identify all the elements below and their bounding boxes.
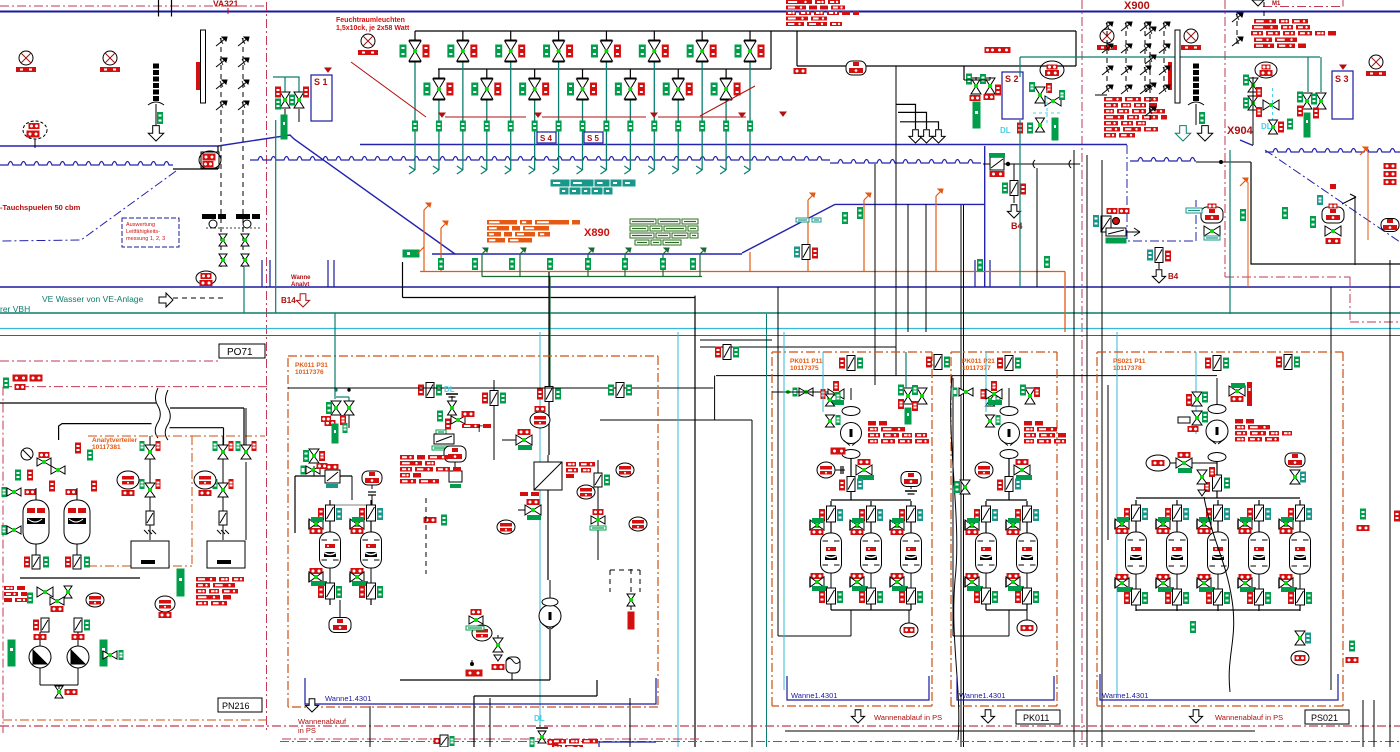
sprinkler nozzle c [1145,108,1155,116]
pipe instrument x851 [847,356,855,371]
PN216 red mini [4,586,14,590]
valve indicator red 11 [662,45,668,57]
red ddot bottom 2 [282,738,700,740]
valve indicator red 12 [686,83,692,95]
P31 drain arrow [305,699,318,712]
P31 green bar top [332,424,338,443]
sprinkler nozzle x1237b [1232,38,1242,46]
pipe instrument x727 [723,345,731,360]
level sensor green 4 [484,121,489,131]
P31 valve box [434,434,454,444]
PS021 drain arrow [1189,710,1202,723]
sprinkler pipe r1 [1125,22,1127,93]
VA321 tick [227,8,229,14]
riser pipe 15 [749,30,751,32]
P11 pump suction [850,420,852,448]
mid pipe x926b [925,204,927,332]
PN216 bottom pipes [39,668,41,685]
valve indicator green 5 [496,45,502,57]
S2 down pipe [963,66,965,80]
svg-text:Wannenablauf in PS: Wannenablauf in PS [1215,713,1283,722]
seg col green ind [158,113,163,124]
P31 red block right [400,455,414,460]
basin floor [432,253,742,255]
pipe x778 [777,287,779,392]
riser outlet arrow 10 [624,170,630,174]
svg-text:Γ: Γ [478,424,483,434]
level sensor green 3 [460,121,465,131]
riser pipe 5 [510,30,512,32]
PN216 small pump [21,448,33,460]
P11 valve col [826,394,835,400]
sprinkler nozzle r [1140,67,1150,75]
cyan drop x678 [677,332,679,747]
P11 pump [841,423,862,444]
Analyt feed pipe B [59,424,152,440]
blue bottom corner [599,741,656,743]
right basin wall [1251,162,1400,264]
P11 inlet pipe [772,391,828,393]
blue dashdot basin slope left [0,171,176,241]
teal drop mid [1229,150,1231,314]
sprinkler nozzle r [1159,45,1169,53]
svg-text:DL: DL [1000,126,1011,135]
PN216 tank 1 [23,500,49,544]
riser outlet arrow 8 [577,170,583,174]
bottom DL valve [538,731,546,737]
bottom pipe stubs [369,706,371,747]
VE dashed line [173,297,223,299]
teal manifold right [1020,56,1320,58]
svg-text:in PS: in PS [298,726,316,735]
level sensor green 13 [700,121,705,131]
riser outlet arrow 9 [600,170,606,174]
manifold valve 7 [558,31,560,40]
water wavy main [250,157,830,161]
sprinkler pipe r0 [1106,22,1108,93]
svg-text:S 3: S 3 [1335,74,1349,84]
P31 instr chain [493,380,495,460]
PS021 valve mid [1197,470,1207,477]
manifold valve 11 [653,31,655,40]
P21 battery headers [986,499,1027,501]
P31 DL valve [448,401,457,408]
PS021 oval left [1146,455,1170,471]
sprinkler nozzle r [1102,45,1112,53]
riser pipe 8 [582,68,584,70]
B4 right instrument [1155,248,1163,263]
orange pipe drop [1064,272,1066,333]
sprinkler feed [1095,94,1107,96]
P11 inlet valves [828,389,836,399]
svg-text:S 4: S 4 [540,134,553,143]
S1 valve 1 [280,92,290,100]
valve indicator green 6 [520,83,526,95]
P31 oval c [577,485,595,499]
valve indicator green 13 [687,45,693,57]
water wavy small box [1130,158,1196,162]
P31 valve left [309,449,319,456]
cond cluster boxes [202,214,216,219]
seg column 2 [1194,64,1199,68]
sprinkler nozzle x1237a [1232,14,1242,22]
manifold valve 8 [582,69,584,78]
P31 pot top b [362,471,382,485]
Analyt red block [196,577,216,582]
riser pipe 3 [462,30,464,32]
svg-text:Wanne1.4301: Wanne1.4301 [959,691,1005,700]
red level marker [651,113,657,117]
right black pipe [1252,77,1254,145]
dashed pipe x1150 [1149,25,1151,120]
manifold valve 2 [438,69,440,78]
P31 ell right [616,463,634,477]
svg-text:Wanne: Wanne [291,275,311,281]
black hpipe left [0,339,288,341]
left pool outlet [173,168,218,170]
P21 oval right [1017,620,1037,636]
box PO71 border [0,360,219,362]
red dash-dot jog right [1225,276,1350,278]
P21 valve mid [1014,465,1022,475]
svg-text:10117377: 10117377 [962,365,991,372]
red level marker [439,113,445,117]
P31 pump low [539,605,561,627]
PS021 bottom valve [1295,631,1305,638]
lamp L2 [103,51,117,65]
P31 rx top [322,417,331,422]
B14 arrow [296,294,309,307]
blue collector stub c [974,260,976,287]
bottom red row [552,739,566,744]
lamp L1 [19,51,33,65]
riser pipe 14 [725,68,727,70]
label box PS021b [1305,710,1349,724]
P21 cyan drop [985,352,987,412]
S1 teal frame [273,77,299,95]
skimmer pump unit [1101,216,1111,232]
S2 valve cluster right [1035,87,1045,95]
mid pipe x908 [907,204,909,332]
pipe instrument x1009 [1005,356,1013,371]
mid pipe pair x961 [960,205,962,747]
red label cluster top right [1254,19,1276,24]
svg-text:PS021: PS021 [1311,713,1338,723]
PN216 tank valves [7,488,14,496]
P31 instr right col [597,460,599,560]
seg col 2 green ind [1200,113,1205,124]
Analyt branch 2 [222,436,224,540]
P31 tank 2 [370,500,372,532]
red dash-dot vertical x1082 [1081,0,1083,747]
P31 DL cluster [438,411,443,421]
P31 oval low [472,625,492,641]
P31 tanks header [330,504,371,506]
lamp L3 [361,34,375,48]
riser outlet arrow 4 [481,170,487,174]
svg-text:Wanne1.4301: Wanne1.4301 [325,694,371,703]
svg-text:PN216: PN216 [222,701,250,711]
valve indicator red 5 [519,45,525,57]
sprinkler nozzle [216,59,226,67]
fluor tube red 2 [1168,62,1172,90]
P11 drain arrow [851,710,864,723]
P11 reducer bottom [842,450,860,459]
teal inds right [1241,210,1246,221]
level sensor green 2 [436,121,441,131]
svg-text:Wanne1.4301: Wanne1.4301 [791,691,837,700]
svg-text:rer VBH: rer VBH [0,304,30,314]
level sensor green 6 [532,121,537,131]
teal ind 1047 [1045,257,1050,268]
svg-text:Auswertung: Auswertung [126,222,155,228]
lamp L4 [1100,29,1114,43]
skimmer arrow right [1342,197,1356,204]
S1 valve 2 [294,92,304,100]
valve indicator green 14 [711,83,717,95]
P31 pipe y476 [295,475,352,477]
S3 red marker [1340,65,1346,69]
label box PK011 [1016,710,1060,724]
red level line seg3 [658,116,746,118]
cond cluster valves [219,234,227,240]
P31 rx row [424,518,436,523]
box PK011 P31 [288,355,658,357]
PS collector pipe [785,730,1255,732]
PS021 squiggle [1204,497,1234,692]
svg-text:10117376: 10117376 [295,369,324,376]
P11 tank 3 [910,501,912,533]
riser outlet arrow 14 [720,170,726,174]
riser pipe 12 [677,68,679,70]
PS021 reducer top [1208,405,1226,414]
P31 hv1 [516,435,524,445]
level sensor green 10 [628,121,633,131]
P31 pump oval b [530,412,550,428]
S1 valve ticks [284,109,286,118]
teal line 2 [0,335,1400,337]
P11 cyan drop [822,352,824,412]
P11 cyan pipe [783,332,785,690]
manifold valve 3 [462,31,464,40]
P21 tank 2 [1026,501,1028,533]
P21 inlet valves [986,389,994,399]
sprinkler nozzle r [1121,45,1131,53]
sprinkler nozzle c [1145,28,1155,36]
pipe instrument x1217 [1213,356,1221,371]
PS021 red block [1235,419,1243,424]
sprinkler pipe r3 [1163,22,1165,93]
PS021 wanne [1100,674,1338,700]
PS021 pot right [1285,453,1305,467]
riser pipe 1 [414,30,416,32]
sprinkler nozzle r [1102,23,1112,31]
Analyt feed pipe A [0,402,156,404]
svg-text:PK011 P11: PK011 P11 [790,358,823,365]
P11 left pipe [777,392,779,636]
skimmer link line [1196,161,1251,163]
S2 valve feed [964,79,990,81]
fluor tube red [196,62,200,90]
S2 green bar 2 [1052,118,1058,140]
P11 oval right [900,623,918,637]
valve indicator green 1 [400,45,406,57]
P11 side pump [817,462,835,478]
svg-text:X900: X900 [1124,0,1150,12]
right pool edge [1240,140,1253,146]
valve indicator red 7 [567,45,573,57]
teal label row 1 [551,180,569,186]
svg-text:S 1: S 1 [314,77,328,87]
manifold header 1 [415,30,1076,32]
S2 cyan dashed [1046,90,1048,125]
PS021 reducer bottom [1208,453,1226,462]
blue stub x402 [402,262,404,287]
cond cluster circles [209,220,217,228]
red dash-dot vertical VA321 [266,2,268,733]
VE arrow [159,293,173,307]
box S4 [537,132,556,143]
PS021 pump [1206,420,1228,442]
sprinkler nozzle [216,38,226,46]
box S3 [1332,71,1353,119]
S2 valve pair [971,78,981,86]
red dash-dot vertical x1225 [1224,0,1226,277]
P11 pot [901,472,921,487]
svg-text:Wannenablauf in PS: Wannenablauf in PS [874,713,942,722]
sprinkler nozzle r [1121,23,1131,31]
sprinkler nozzle r [1140,86,1150,94]
right red cluster mid [1384,164,1396,169]
red ddot bottom 3 [280,741,1400,743]
teal manifold drop a [1019,57,1021,77]
PS021 instr mid [1213,475,1222,491]
blue dashdot slope far right [1265,150,1400,242]
valve indicator red 14 [734,83,740,95]
level sensor green 14 [724,121,729,131]
seg column umbrella [148,102,164,105]
basin wall right diagonal [742,204,835,253]
P11 tank 1 [830,501,832,533]
Analyt boxes [131,541,169,568]
P11 reducer top [842,407,860,416]
water wavy far right [1265,149,1400,153]
svg-text:10117381: 10117381 [92,444,121,451]
discharge elbow 1 [896,104,916,129]
valve indicator red 10 [638,83,644,95]
svg-text:1,5x10ck, je 2x58 Watt: 1,5x10ck, je 2x58 Watt [336,25,410,32]
S2 valve pair b [970,96,980,101]
S2 red pair [985,48,995,53]
P11 tank 2 [870,501,872,533]
riser pipe 4 [486,68,488,70]
mid pipe x1037 [1036,168,1038,287]
P31 ell low [542,598,558,606]
manifold header 2 [438,68,771,70]
red level marker [739,113,745,117]
valve indicator red 13 [710,45,716,57]
P31 valve low [493,638,503,645]
svg-text:PO71: PO71 [227,347,253,358]
PS021 tank 4 [1258,500,1260,532]
blue collector stub b [327,260,329,287]
manifold valve 9 [605,31,607,40]
red dash-dot frame top right [1263,6,1343,8]
orange risers [423,210,425,272]
sprinkler nozzle [216,102,226,110]
pipe x752 [751,420,753,747]
red diagonal right [700,86,755,116]
pipe instrument x430 [426,383,434,398]
P31 mixer pipe [547,455,549,462]
sprinkler nozzle r [1159,86,1169,94]
riser outlet arrow 7 [553,170,559,174]
PS021 top valves [1247,382,1252,406]
pipe x1331 [1330,287,1332,690]
valve indicator green 11 [639,45,645,57]
PS021 pipes [1216,378,1218,405]
level sensor green 8 [580,121,585,131]
riser pipe 10 [629,68,631,70]
sprinkler dashed pipe 1 [220,38,222,267]
P11 green bar [905,408,911,424]
svg-text:10117375: 10117375 [790,365,819,372]
PN216 corner reds [13,375,27,381]
riser outlet arrow 2 [433,170,439,174]
red label cluster top centre [786,0,812,4]
riser outlet arrow 12 [672,170,678,174]
riser outlet arrow 11 [648,170,654,174]
fluor tube 1 [201,30,206,103]
box S2 [1002,72,1023,119]
S2 oval sensor [1040,61,1064,79]
PN216 pump1 [29,646,51,668]
manifold valve 12 [677,69,679,78]
sprinkler nozzle r [1102,86,1112,94]
P31 small valve right [627,594,635,600]
green pair left [403,250,419,257]
P31 feed drop [334,313,336,399]
P21 top valves [1025,388,1035,396]
svg-text:10117378: 10117378 [1113,365,1142,372]
sprinkler nozzle [216,81,226,89]
PS021 tank 2 [1176,500,1178,532]
svg-text:Analyt: Analyt [291,282,309,288]
svg-text:X890: X890 [584,227,610,239]
green floor inds [439,259,444,270]
P31 valve d [525,505,533,515]
Analyt ovals [117,471,139,489]
valve indicator green 15 [735,45,741,57]
teal drop pipe a [243,267,245,313]
valve indicator green 3 [448,45,454,57]
level sensor green 5 [508,121,513,131]
upper ledge right [835,203,985,205]
manifold header right drop [1075,31,1077,66]
PN216 valve row [37,458,44,466]
cyan drop c [1116,332,1118,695]
P21 pipes [1008,388,1010,407]
S3 teal drops [1307,57,1309,92]
svg-text:VA321: VA321 [213,0,239,9]
svg-text:PK011: PK011 [1023,713,1049,723]
PS021 hvalve top [1229,386,1237,396]
pipe instrument x938 [934,355,942,370]
discharge arrow 1 [909,130,922,143]
PS021 tank 3 [1217,500,1219,532]
PS021 left pipe [1107,385,1109,540]
riser pipe 7 [558,30,560,32]
